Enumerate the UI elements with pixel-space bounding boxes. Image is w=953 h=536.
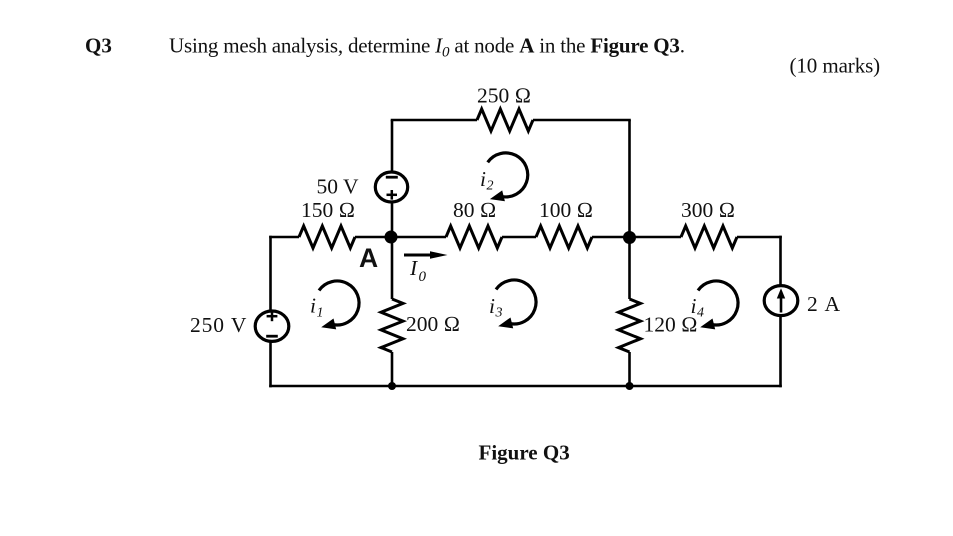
svg-text:250 Ω: 250 Ω <box>477 84 531 108</box>
label "150 ohm" <box>301 198 355 222</box>
label + sign of 250 V source <box>267 312 278 322</box>
label "100 ohm" <box>539 198 593 222</box>
label - sign of 250 V source <box>266 335 278 338</box>
wire node A down to 200 ohm <box>391 237 394 299</box>
wire far right vertical (middle rail to 2A top) <box>779 236 782 287</box>
svg-text:i: i <box>310 294 316 318</box>
wire bottom rail <box>269 385 782 388</box>
wire right-middle vertical (top rail down to middle rail) <box>628 120 631 237</box>
svg-text:Q3: Q3 <box>85 34 112 58</box>
label "200 ohm" <box>406 312 460 336</box>
wire 150ohm to node A <box>355 236 392 239</box>
wire 50V bottom to node A <box>391 201 394 237</box>
resistor 150 ohm (middle rail left) <box>299 226 355 248</box>
label "i3" <box>489 294 503 321</box>
svg-text:2A: 2A <box>807 292 841 316</box>
node junction dot (bottom, below 120 ohm) <box>626 382 634 390</box>
svg-text:Using mesh analysis, determine: Using mesh analysis, determine I0 at nod… <box>169 34 685 61</box>
svg-text:i: i <box>480 167 486 191</box>
label "2 A" <box>807 292 841 316</box>
node A (junction dot) <box>385 231 398 244</box>
resistor 200 ohm (vertical) <box>381 299 403 352</box>
svg-text:i: i <box>691 294 697 318</box>
label + sign of 50 V source <box>387 190 398 200</box>
wire top-left vertical (50V top to top rail) <box>391 120 394 173</box>
label "Figure Q3" (caption) <box>479 441 570 465</box>
label question text <box>169 34 685 61</box>
voltage source 50 V (circle) <box>375 172 407 202</box>
svg-text:1: 1 <box>317 306 324 321</box>
wire 80 ohm to 100 ohm <box>502 236 536 239</box>
svg-text:100 Ω: 100 Ω <box>539 198 593 222</box>
svg-text:150 Ω: 150 Ω <box>301 198 355 222</box>
node junction dot (middle right) <box>623 231 636 244</box>
wire 120 ohm to bottom rail <box>628 352 631 386</box>
label "i2" <box>480 167 494 194</box>
voltage source 250 V (circle) <box>255 311 289 341</box>
svg-text:2: 2 <box>487 179 494 194</box>
wire middle-right node down to 120 ohm <box>628 237 631 299</box>
current source 2 A (circle with up arrow) <box>764 286 798 316</box>
svg-text:300 Ω: 300 Ω <box>681 198 735 222</box>
label "I0" (current I0, italic) <box>409 256 427 285</box>
wire 200 ohm to bottom rail <box>391 352 394 386</box>
label "Q3" (question number) <box>85 34 112 58</box>
resistor 80 ohm <box>446 226 502 248</box>
resistor 250 ohm (top rail) <box>477 109 533 131</box>
wire middle rail far-left segment <box>269 236 299 239</box>
label "250 V" <box>190 313 247 337</box>
svg-text:80 Ω: 80 Ω <box>453 198 496 222</box>
node junction dot (bottom, below A) <box>388 382 396 390</box>
label "50 V" <box>317 175 359 199</box>
resistor 100 ohm <box>536 226 592 248</box>
label "(10 marks)" <box>790 54 881 78</box>
svg-text:I: I <box>409 256 418 280</box>
svg-text:Figure Q3: Figure Q3 <box>479 441 570 465</box>
mesh current arrow i2 (arc) <box>488 153 528 201</box>
svg-text:0: 0 <box>419 269 427 285</box>
resistor 300 ohm <box>681 226 737 248</box>
wire left vertical (middle rail to 250V top) <box>269 236 272 312</box>
label "120 ohm" <box>644 313 698 337</box>
svg-text:4: 4 <box>697 306 704 321</box>
svg-text:(10 marks): (10 marks) <box>790 54 881 78</box>
svg-text:3: 3 <box>495 306 503 321</box>
label "i4" <box>691 294 705 321</box>
label "A" (node A) <box>359 243 378 273</box>
wire top rail left segment <box>391 119 477 122</box>
label "i1" <box>310 294 324 321</box>
svg-text:A: A <box>359 243 378 273</box>
label "250 ohm" <box>477 84 531 108</box>
arrow I0 (current direction at node A) <box>404 251 448 258</box>
svg-text:i: i <box>489 294 495 318</box>
mesh current arrow i3 (arc) <box>496 280 536 328</box>
svg-text:50 V: 50 V <box>317 175 359 199</box>
label - sign of 50 V source <box>386 176 398 179</box>
wire 300 ohm to far right corner <box>737 236 782 239</box>
wire middle-right node to 300 ohm <box>630 236 682 239</box>
svg-text:250 V: 250 V <box>190 313 247 337</box>
svg-text:200 Ω: 200 Ω <box>406 312 460 336</box>
mesh current arrow i1 (arc) <box>319 281 359 329</box>
label "80 ohm" <box>453 198 496 222</box>
wire 100 ohm to middle-right node <box>592 236 630 239</box>
mesh current arrow i4 (arc) <box>698 281 738 329</box>
wire 2A bottom to bottom rail <box>779 315 782 388</box>
wire top rail right segment <box>533 119 631 122</box>
wire node A to 80 ohm <box>392 236 446 239</box>
label "300 ohm" <box>681 198 735 222</box>
wire 250V bottom to bottom rail <box>269 341 272 388</box>
resistor 120 ohm (vertical) <box>619 299 641 352</box>
